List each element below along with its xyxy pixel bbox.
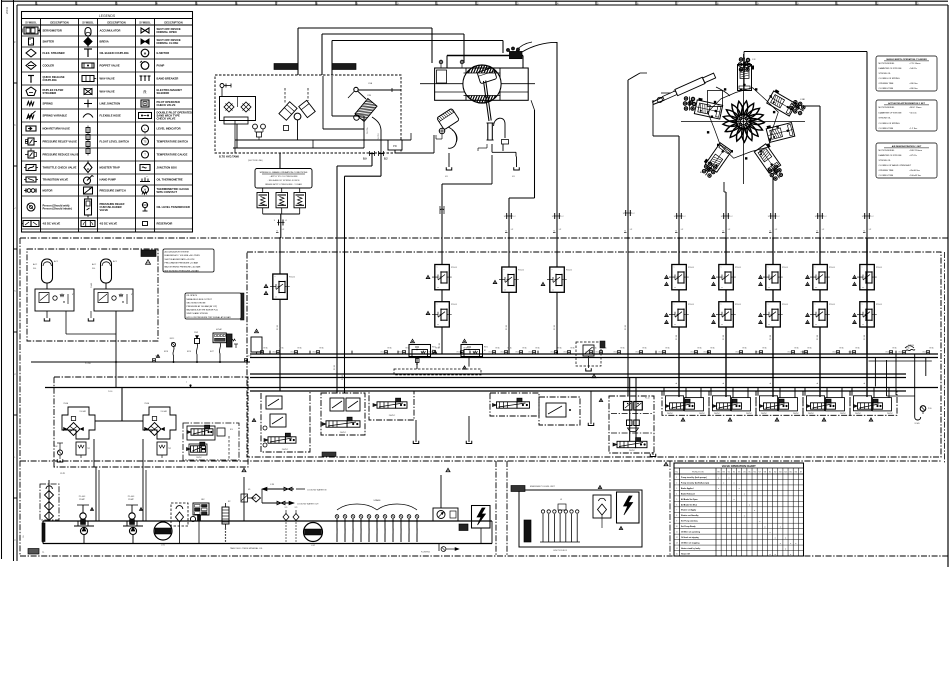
svg-text:SPARE: SPARE [384,528,387,533]
svg-text:L2: L2 [562,216,564,218]
svg-text:PUMP: PUMP [128,499,134,501]
svg-text:S5: S5 [790,472,792,474]
svg-text:sv: sv [815,287,817,289]
svg-text:sv: sv [721,287,723,289]
svg-text:P2-01: P2-01 [782,304,789,306]
svg-text:L2: L2 [282,229,285,231]
svg-text:s: s [437,304,438,306]
svg-text:24VDC: 24VDC [699,413,706,415]
svg-text:PSW: PSW [194,332,198,334]
svg-text:s: s [768,267,769,269]
svg-text:BV1A: BV1A [388,347,393,350]
svg-text:P2-01: P2-01 [735,304,742,306]
svg-text:BV1A: BV1A [795,347,800,350]
svg-text:4/3 DC VALVE: 4/3 DC VALVE [100,222,118,226]
svg-text:STROKE OIL: STROKE OIL [879,160,892,162]
svg-text:13: 13 [676,543,678,545]
svg-text:TEMPERATURE SWITCH: TEMPERATURE SWITCH [157,140,189,144]
svg-text:s: s [275,276,276,278]
svg-text:VALVE: VALVE [100,208,109,212]
svg-text:DN10: DN10 [659,352,663,354]
svg-text:No: No [676,472,678,474]
svg-text:MOTION MODEL: MOTION MODEL [879,63,896,65]
svg-text:24VDC: 24VDC [629,450,635,452]
svg-text:BV1A: BV1A [711,347,716,350]
svg-text:MOISTER TRAP: MOISTER TRAP [100,166,121,170]
svg-text:V2: V2 [733,472,735,474]
svg-text:BV1A: BV1A [320,347,325,350]
svg-text:SPARE: SPARE [373,499,381,502]
svg-text:CLOSING TIME: CLOSING TIME [879,88,894,90]
svg-text:Person (Should inhale): Person (Should inhale) [43,207,72,211]
svg-text:50L: 50L [33,268,37,270]
svg-text:SECTIONS STROKE: SECTIONS STROKE [187,302,207,304]
svg-text:C.W: C.W [270,484,274,486]
svg-text:L5: L5 [560,499,562,501]
svg-text:CLOSING OF SPRING: CLOSING OF SPRING [879,78,900,80]
svg-text:MOTION MODEL: MOTION MODEL [879,150,896,152]
svg-text:6: 6 [676,504,677,506]
svg-text:A: A [863,382,866,384]
svg-text:RV2A: RV2A [64,402,69,405]
svg-text:BRAKE APPLY PRESSURE : 11 BAR: BRAKE APPLY PRESSURE : 11 BAR [265,183,302,186]
svg-text:CLOSING OF SPRING: CLOSING OF SPRING [879,123,900,125]
svg-text:STROKE OIL: STROKE OIL [879,73,892,75]
svg-text:sv: sv [674,287,676,289]
svg-text:s: s [862,267,863,269]
svg-text:LG1: LG1 [161,545,166,547]
svg-text:B10: B10 [230,429,233,431]
svg-text:HPU LOW PRESSURE TRIP SIGNAL A: HPU LOW PRESSURE TRIP SIGNAL AT 80 BAR [187,316,232,319]
svg-text:s: s [721,267,722,269]
svg-text:CHECK VALVE: CHECK VALVE [157,117,176,121]
svg-text:TANK 900 LITERS MINERAL OIL: TANK 900 LITERS MINERAL OIL [230,547,263,550]
svg-text:s: s [862,304,863,306]
svg-text:V4: V4 [743,472,745,474]
svg-text:TRANSITION VALVE: TRANSITION VALVE [43,178,69,182]
svg-text:V7: V7 [759,472,761,474]
svg-text:DN10: DN10 [899,352,903,354]
svg-text:Heater Off: Heater Off [681,552,690,555]
svg-text:POPPET VALVE: POPPET VALVE [100,64,120,68]
svg-text:- APPLY BY OIL PRESSURE: - APPLY BY OIL PRESSURE [269,175,298,178]
svg-text:DIAMETER OF STROKE: DIAMETER OF STROKE [879,67,903,70]
svg-text:SPARE: SPARE [908,344,915,347]
svg-text:V6: V6 [754,472,756,474]
svg-text:P2-01: P2-01 [876,304,883,306]
svg-text:P2-08: P2-08 [817,335,819,340]
svg-text:E-MOTOR: E-MOTOR [157,51,170,55]
svg-text:BV1A: BV1A [298,347,303,350]
svg-text:~: ~ [146,175,148,179]
svg-text:C: C [13,207,16,209]
svg-text:R: R [143,90,146,95]
svg-text:G: G [13,539,16,541]
svg-text:BV1A: BV1A [856,347,861,350]
svg-text:BV1A: BV1A [593,347,598,350]
svg-text:5: 5 [676,499,677,501]
svg-text:L2: L2 [775,229,778,231]
svg-text:s: s [768,304,769,306]
svg-text:SERVOMOTOR: SERVOMOTOR [43,29,62,33]
svg-text:P2-01: P2-01 [688,304,695,306]
svg-text:RV1: RV1 [432,347,436,349]
svg-text:sv: sv [674,324,676,326]
svg-text:S: S [274,220,276,222]
svg-text:sv: sv [768,287,770,289]
svg-text:B.BF: B.BF [770,169,776,171]
svg-text:RESERVOIR: RESERVOIR [157,222,173,226]
svg-text:HAND PUMP: HAND PUMP [100,178,116,182]
svg-text:MAX ANGLE AT THE BURGH F-50: MAX ANGLE AT THE BURGH F-50 [187,309,219,312]
svg-text:BV1A: BV1A [523,347,528,350]
svg-text:DESCRIPTION: DESCRIPTION [164,20,182,24]
svg-text:s: s [504,269,505,271]
svg-text:P.BAR: P.BAR [90,282,93,288]
svg-text:B.2: B.2 [384,159,388,161]
svg-text:24VDC: 24VDC [714,413,721,415]
svg-text:WAY-VALVE: WAY-VALVE [100,90,115,94]
svg-text:BV2B: BV2B [164,351,168,353]
svg-text:DESCRIPTION: DESCRIPTION [107,20,125,24]
svg-text:L3: L3 [512,176,515,178]
svg-text:P2-01: P2-01 [782,267,789,269]
svg-text:TEMPERATURE GAUGE: TEMPERATURE GAUGE [157,153,188,157]
svg-text:P2-08: P2-08 [770,335,772,340]
svg-text:OIL BLEED COUPLING: OIL BLEED COUPLING [100,51,129,55]
svg-text:S4: S4 [784,472,786,474]
svg-text:OIL SPECS: OIL SPECS [187,295,198,297]
svg-text:JUNCTION BOX: JUNCTION BOX [157,166,178,170]
svg-text:SILENOID: SILENOID [157,91,170,95]
svg-text:MOTION MODEL: MOTION MODEL [879,107,896,109]
svg-text:SWITCH AND STROKE: SWITCH AND STROKE [187,312,209,315]
svg-text:L2: L2 [630,229,633,231]
svg-text:BV2E: BV2E [187,351,191,353]
svg-text:D: D [13,290,16,292]
svg-text:BREVA: BREVA [100,40,109,44]
svg-text:s: s [552,269,553,271]
svg-text:sv: sv [862,287,864,289]
svg-text:BV1A: BV1A [508,347,513,350]
svg-text:• 475 Pa: • 475 Pa [909,155,918,157]
svg-text:A: A [816,382,819,384]
svg-text:PRESSURE SWITCH: PRESSURE SWITCH [100,189,126,193]
svg-text:COUPLING: COUPLING [43,78,57,82]
svg-text:s: s [815,304,816,306]
svg-text:Set Pump Ready: Set Pump Ready [681,525,697,528]
svg-text:LEVEL INDICATOR: LEVEL INDICATOR [157,127,181,131]
svg-text:BV1A: BV1A [763,347,768,350]
svg-text:Shutter set-Standby: Shutter set-Standby [681,514,699,517]
svg-text:Heater stand by faulty: Heater stand by faulty [681,547,701,550]
svg-text:CHECK VALVE: CHECK VALVE [157,103,176,107]
svg-text:Oil level set tripping: Oil level set tripping [681,536,699,539]
svg-text:W: W [144,188,147,192]
svg-text:C.F: C.F [752,59,756,61]
svg-text:SHIFTER: SHIFTER [43,40,55,44]
svg-text:DN10: DN10 [313,352,317,354]
svg-text:WAY-VALVE: WAY-VALVE [100,77,115,81]
svg-text:BV1A: BV1A [666,347,671,350]
svg-text:ACCUMULATOR: ACCUMULATOR [100,29,121,33]
svg-text:DN10: DN10 [833,352,837,354]
svg-text:RV2A: RV2A [145,402,150,405]
svg-text:3: 3 [676,488,677,490]
svg-text:OIL THERMOMETRE: OIL THERMOMETRE [157,178,183,182]
svg-text:DIAMETER OF STROKE: DIAMETER OF STROKE [879,111,903,114]
svg-text:L2: L2 [869,229,872,231]
svg-text:sv: sv [504,290,506,292]
svg-text:sv: sv [815,324,817,326]
svg-text:LINE JUNCTION: LINE JUNCTION [100,102,121,106]
svg-text:S2: S2 [774,472,776,474]
svg-text:PUMP: PUMP [157,64,165,68]
svg-text:24VDC: 24VDC [761,413,768,415]
svg-text:All Brake Set Shut: All Brake Set Shut [681,503,697,506]
svg-text:24VDC: 24VDC [282,449,289,451]
svg-text:DN10: DN10 [399,352,403,354]
svg-text:SPARE: SPARE [344,528,347,533]
svg-text:s: s [437,267,438,269]
svg-text:sv: sv [437,324,439,326]
svg-text:• 540 Pa: • 540 Pa [909,68,918,70]
svg-text:ACC: ACC [33,263,38,266]
svg-text:PILOT B: PILOT B [378,133,380,140]
svg-text:V5: V5 [748,472,750,474]
svg-text:CLOSING TIME: CLOSING TIME [879,175,894,177]
svg-text:V3: V3 [738,472,740,474]
svg-text:B: B [13,124,16,126]
svg-text:PRESSURE REDUCE VALVE: PRESSURE REDUCE VALVE [43,153,79,157]
svg-text:4/2 DC VALVE: 4/2 DC VALVE [43,222,61,226]
svg-text:24VDC: 24VDC [389,415,396,417]
svg-text:VALVE OPERATION CHART: VALVE OPERATION CHART [722,464,756,468]
svg-text:Oil filter set stopping: Oil filter set stopping [681,542,699,545]
svg-text:NEMA FIELD BUS OUTPUT: NEMA FIELD BUS OUTPUT [187,298,213,301]
svg-text:DN10: DN10 [788,352,792,354]
svg-text:L2: L2 [514,216,516,218]
svg-text:L2: L2 [872,216,874,218]
svg-text:P2-03: P2-03 [506,325,508,330]
svg-text:V1: V1 [728,472,730,474]
svg-text:DN10: DN10 [516,352,520,354]
svg-text:P-B10: P-B10 [108,391,113,393]
svg-text:DN10: DN10 [636,352,640,354]
svg-text:L2: L2 [559,229,562,231]
svg-text:DN10: DN10 [736,352,740,354]
svg-text:24VDC: 24VDC [808,413,815,415]
svg-text:50L: 50L [92,268,96,270]
svg-text:SPARE: SPARE [336,528,339,533]
svg-text:SPRING: SPRING [43,102,53,106]
svg-text:sv: sv [437,287,439,289]
svg-text:24VDC: 24VDC [667,413,674,415]
svg-text:PUMP: PUMP [79,499,85,501]
svg-text:MIN WORKING PRESSURE =90 BAR: MIN WORKING PRESSURE =90 BAR [165,269,200,272]
svg-text:S6: S6 [795,472,797,474]
svg-text:LG2: LG2 [311,545,316,547]
svg-text:P2-03: P2-03 [439,343,441,348]
svg-text:ACTUATOR APPROXIMATION 1 SET: ACTUATOR APPROXIMATION 1 SET [888,102,925,105]
svg-text:PD: PD [393,144,397,148]
svg-text:DN10: DN10 [691,352,695,354]
svg-text:C2A: C2A [368,82,373,85]
svg-text:P2-08: P2-08 [723,335,725,340]
svg-text:V1: V1 [72,294,74,296]
svg-text:OIL LEVEL TRANSDUCER: OIL LEVEL TRANSDUCER [157,205,190,209]
svg-text:BV1A: BV1A [930,347,935,350]
svg-text:L2: L2 [825,216,827,218]
svg-text:SHEILD BERTH OPERATION CYLINDE: SHEILD BERTH OPERATION CYLINDER [886,58,927,61]
svg-text:C2B: C2B [367,95,372,97]
svg-text:DN10: DN10 [501,352,505,354]
svg-text:• MOC 15mm: • MOC 15mm [909,107,922,109]
svg-text:BV2C: BV2C [170,338,175,340]
svg-text:9: 9 [676,521,677,523]
svg-text:DN10: DN10 [489,352,493,354]
svg-text:• 430 Sec: • 430 Sec [909,83,918,85]
svg-text:V21: V21 [294,507,297,509]
svg-text:BV1A: BV1A [743,347,748,350]
svg-text:BV1A: BV1A [536,347,541,350]
svg-text:FLEXIBLE HOSE: FLEXIBLE HOSE [100,114,122,118]
svg-text:STRAINER: STRAINER [43,91,57,95]
svg-text:10: 10 [676,526,678,528]
svg-text:ACCUMULATOR SYSTEM: ACCUMULATOR SYSTEM [165,250,189,253]
svg-text:DN10: DN10 [596,352,600,354]
svg-text:PRE-CHARGE PRESSURE =70 BAR: PRE-CHARGE PRESSURE =70 BAR [165,262,199,265]
svg-text:FLEX. STRAINER: FLEX. STRAINER [43,51,65,55]
svg-text:P2-10: P2-10 [645,398,650,400]
svg-text:JUNCTION BOX: JUNCTION BOX [553,550,568,552]
svg-text:BV1A: BV1A [571,347,576,350]
svg-text:24VDC: 24VDC [887,413,894,415]
svg-text:- RELEASE BY SPRING FORCE: - RELEASE BY SPRING FORCE [267,179,300,182]
svg-text:sv: sv [768,324,770,326]
svg-text:COOLING WATER IN: COOLING WATER IN [307,489,327,492]
svg-text:P2-08: P2-08 [676,335,678,340]
svg-text:V21: V21 [284,507,287,509]
svg-text:PRESSURE RELIEF VALVE: PRESSURE RELIEF VALVE [43,140,78,144]
svg-text:L2: L2 [728,229,731,231]
svg-text:DN10: DN10 [551,352,555,354]
svg-text:L2: L2 [633,213,635,215]
svg-text:DN10: DN10 [273,352,277,354]
svg-text:L3: L3 [445,176,448,178]
svg-text:7: 7 [676,510,677,512]
svg-text:1: 1 [676,477,677,479]
svg-text:SHUT BLADDER RATE =35 LPM: SHUT BLADDER RATE =35 LPM [165,258,195,261]
svg-text:SPARE: SPARE [400,528,403,533]
svg-text:THROTTLE CHECK VALVE: THROTTLE CHECK VALVE [43,166,77,170]
svg-text:SYMBOL: SYMBOL [25,20,37,24]
svg-text:RV1: RV1 [484,347,488,349]
svg-text:S7: S7 [800,472,802,474]
svg-text:BV1A: BV1A [840,347,845,350]
svg-text:DRAIN: DRAIN [915,422,921,425]
svg-text:DN10: DN10 [923,352,927,354]
svg-text:LEGENDS: LEGENDS [99,14,116,18]
svg-text:DN10: DN10 [381,352,385,354]
svg-text:SPARE: SPARE [352,528,355,533]
svg-text:AC1: AC1 [113,260,118,263]
svg-text:• 45x30 Sec: • 45x30 Sec [909,170,920,172]
svg-text:SPARE: SPARE [360,528,363,533]
svg-text:BV1A: BV1A [558,347,563,350]
svg-text:FUNCTION: FUNCTION [692,472,704,474]
svg-text:P2-03: P2-03 [625,325,627,330]
svg-text:P2-01: P2-01 [566,270,573,272]
svg-text:DN10: DN10 [291,352,295,354]
svg-text:12: 12 [676,537,678,539]
svg-text:WITH CONTACT: WITH CONTACT [157,190,178,194]
svg-text:Pump stand-by (both pumps): Pump stand-by (both pumps) [681,476,707,479]
svg-text:BV1A: BV1A [698,347,703,350]
svg-text:NORMAL OPEN: NORMAL OPEN [157,30,177,34]
svg-text:BAND BREAKER: BAND BREAKER [157,77,179,81]
svg-text:P2-08: P2-08 [864,335,866,340]
svg-text:L2: L2 [822,229,825,231]
svg-text:E: E [13,373,16,375]
svg-text:• 1.2 Sec: • 1.2 Sec [909,128,917,130]
svg-text:DN10: DN10 [564,352,568,354]
svg-text:FLUSHING: FLUSHING [421,552,431,554]
svg-text:s: s [721,304,722,306]
svg-text:L2: L2 [681,229,684,231]
svg-text:HYDAC: HYDAC [216,328,223,331]
svg-text:T: T [144,153,146,157]
svg-text:OIL: OIL [23,535,25,538]
svg-text:SPRING VARIABLE: SPRING VARIABLE [43,114,68,118]
svg-text:PG2: PG2 [54,446,57,448]
svg-text:NORMAL CLOSE: NORMAL CLOSE [157,41,179,45]
svg-text:BLADDER ACC. VOLUME =50 LIT: BLADDER ACC. VOLUME =50 LITERS [165,254,201,257]
svg-text:L2: L2 [731,216,733,218]
svg-text:BV1A: BV1A [621,347,626,350]
svg-text:• CYL 50mm: • CYL 50mm [909,63,921,65]
svg-text:P2-01: P2-01 [829,267,836,269]
svg-text:NON-RETURN VALVE: NON-RETURN VALVE [43,127,71,131]
svg-text:CLOSING TIME: CLOSING TIME [879,128,894,130]
svg-text:COOLING WATER OUT: COOLING WATER OUT [297,503,319,506]
svg-text:24VDC: 24VDC [340,432,347,434]
svg-text:• 30 mm: • 30 mm [909,112,917,114]
svg-text:A: A [769,382,772,384]
svg-text:P1-003: P1-003 [79,496,86,498]
svg-text:B1: B1 [484,350,486,352]
svg-text:MOTOR: MOTOR [43,189,53,193]
svg-text:F: F [13,456,16,458]
svg-text:STROKE OIL: STROKE OIL [879,118,892,120]
svg-text:DN10: DN10 [704,352,708,354]
svg-text:P2-03: P2-03 [342,375,344,380]
svg-text:TV2: TV2 [87,448,90,450]
svg-text:SPARE: SPARE [408,528,411,533]
svg-text:24VDC: 24VDC [793,413,800,415]
svg-text:B.TO HYD.TANK: B.TO HYD.TANK [219,155,239,159]
svg-text:PRESSURE AT 100 BAR (AT C/P): PRESSURE AT 100 BAR (AT C/P) [187,305,218,308]
svg-text:All Brake Set Open: All Brake Set Open [681,498,698,501]
svg-text:Brake Applied: Brake Applied [681,487,693,490]
svg-text:Brake Released: Brake Released [681,492,695,495]
svg-text:sv: sv [275,297,277,299]
svg-text:S1: S1 [769,472,771,474]
svg-text:24VDC: 24VDC [196,457,202,459]
svg-text:OPENING TIME: OPENING TIME [879,170,894,172]
svg-text:PG5: PG5 [928,408,932,410]
svg-text:B.9: B.9 [363,159,367,161]
